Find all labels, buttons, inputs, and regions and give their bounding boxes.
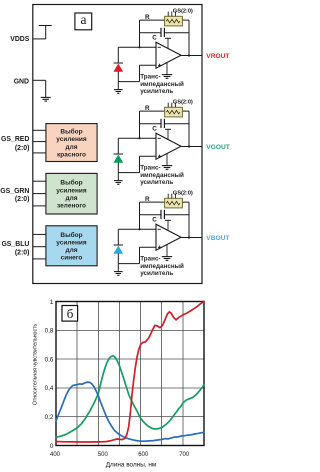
svg-text:б: б [67,306,74,321]
svg-text:импедансный: импедансный [140,262,184,270]
svg-text:(2:0): (2:0) [15,249,30,256]
svg-text:R: R [145,105,150,112]
svg-text:усилитель: усилитель [140,270,173,277]
svg-text:Относительная чувствительность: Относительная чувствительность [33,324,39,406]
svg-text:синего: синего [61,255,83,262]
svg-text:GS(2:0): GS(2:0) [173,99,193,105]
svg-text:Выбор: Выбор [60,128,82,136]
svg-text:500: 500 [98,452,109,458]
svg-text:усиления: усиления [56,136,87,143]
svg-text:для: для [65,144,77,151]
svg-text:красного: красного [57,151,86,158]
svg-text:R: R [145,196,150,203]
svg-text:импедансный: импедансный [140,171,184,179]
svg-text:усилитель: усилитель [140,88,173,95]
svg-text:Транс-: Транс- [140,164,160,171]
svg-text:R: R [145,14,150,21]
svg-text:для: для [65,195,77,202]
svg-text:a: a [81,12,87,27]
svg-text:усилитель: усилитель [140,179,173,186]
svg-text:0,2: 0,2 [45,414,54,421]
svg-text:GS(2:0): GS(2:0) [173,190,193,196]
svg-text:Транс-: Транс- [140,255,160,262]
svg-text:C: C [152,34,157,41]
svg-text:0,4: 0,4 [45,385,54,392]
svg-text:(2:0): (2:0) [15,145,30,152]
svg-text:0: 0 [50,443,54,450]
svg-text:700: 700 [179,452,190,458]
svg-text:GND: GND [14,78,29,85]
svg-text:Транс-: Транс- [140,73,160,80]
svg-text:VBOUT: VBOUT [206,235,229,242]
svg-text:GS_BLU: GS_BLU [1,241,29,248]
svg-text:VROUT: VROUT [206,53,229,60]
svg-text:600: 600 [138,452,149,458]
svg-text:GS_GRN: GS_GRN [0,188,29,195]
svg-text:400: 400 [50,452,61,458]
svg-text:Выбор: Выбор [60,231,82,239]
svg-text:для: для [65,247,77,254]
svg-text:VGOUT: VGOUT [206,144,229,151]
svg-text:GS_RED: GS_RED [1,136,29,143]
svg-text:(2:0): (2:0) [15,196,30,203]
svg-text:Выбор: Выбор [60,179,82,187]
svg-text:C: C [152,125,157,132]
svg-text:усиления: усиления [56,239,87,246]
svg-text:0,8: 0,8 [45,328,54,335]
svg-text:зеленого: зеленого [57,203,86,210]
svg-text:Длина волны, нм: Длина волны, нм [106,461,157,468]
svg-text:1: 1 [50,299,54,306]
svg-text:усиления: усиления [56,187,87,194]
svg-text:0,6: 0,6 [45,356,54,363]
svg-text:GS(2:0): GS(2:0) [173,8,193,14]
svg-text:C: C [152,216,157,223]
svg-text:импедансный: импедансный [140,80,184,88]
svg-text:VDDS: VDDS [10,36,30,43]
